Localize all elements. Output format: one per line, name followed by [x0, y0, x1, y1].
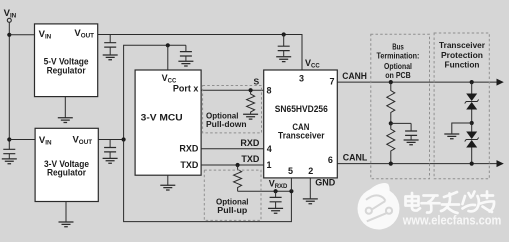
junction CANL termination — [389, 162, 393, 166]
resistor R3 termination upper — [387, 82, 395, 123]
regulator U2 3-V voltage regulator — [35, 128, 98, 201]
ground transceiver GND — [309, 178, 311, 199]
ground capacitor C2 — [178, 61, 193, 66]
wire VIN vertical rail — [8, 23, 10, 150]
svg-text:TXD: TXD — [180, 160, 199, 170]
wire transceiver pin 5 to VRXD — [290, 178, 292, 191]
svg-text:Transceiver: Transceiver — [439, 40, 486, 50]
wire pull-up to VRXD — [238, 190, 292, 192]
resistor R4 termination lower — [387, 123, 395, 163]
arrow CANH — [497, 79, 504, 86]
capacitor C5 3-V input bypass — [8, 154, 10, 159]
wire 5-V rail VOUT to transceiver VCC — [98, 35, 302, 71]
junction CANH termination — [389, 80, 393, 84]
svg-text:1: 1 — [266, 160, 271, 170]
junction termination midpoint — [389, 121, 393, 125]
capacitor C8 split termination — [410, 123, 412, 139]
svg-text:GND: GND — [315, 177, 336, 187]
arrow CANL — [497, 160, 504, 167]
ground pull-down — [243, 114, 258, 119]
tvs D1 upper bidirectional — [465, 82, 479, 123]
wire MCU TXD to transceiver pin D — [201, 164, 264, 166]
capacitor C7 VRXD bypass — [275, 191, 277, 208]
svg-text:Port x: Port x — [173, 83, 199, 93]
svg-text:6: 6 — [328, 155, 333, 165]
wire MCU VCC feed — [167, 45, 169, 70]
wire VRXD return loop — [124, 140, 292, 222]
ground capacitor C1 — [103, 55, 118, 60]
ground MCU — [167, 175, 169, 185]
wire 3-V regulator output — [98, 139, 123, 141]
svg-text:Regulator: Regulator — [47, 65, 86, 75]
ground capacitor C5 — [2, 159, 17, 164]
svg-text:3: 3 — [299, 74, 304, 84]
node VIN input terminal — [4, 8, 17, 22]
ground protection — [444, 134, 459, 139]
junction protection midpoint — [470, 121, 474, 125]
ground capacitor C7 — [268, 208, 283, 213]
svg-text:Regulator: Regulator — [47, 168, 86, 178]
svg-text:Pull-down: Pull-down — [206, 120, 247, 129]
wire VIN to 3-V regulator — [9, 139, 35, 141]
svg-text:2: 2 — [308, 166, 313, 176]
svg-text:5: 5 — [288, 166, 293, 176]
box transceiver protection — [434, 33, 489, 179]
svg-text:Termination:: Termination: — [377, 51, 420, 61]
mcu U3 3-V MCU — [135, 70, 201, 175]
svg-text:on PCB: on PCB — [385, 70, 411, 80]
svg-text:www.elecfans.com: www.elecfans.com — [402, 213, 501, 227]
wire MCU RXD to transceiver pin R — [201, 148, 264, 150]
svg-text:Protection: Protection — [441, 50, 483, 60]
wire 3-V rail top section — [124, 45, 186, 139]
svg-text:CANL: CANL — [343, 152, 368, 162]
box optional pull-up — [204, 170, 261, 220]
resistor R1 optional pull-down — [247, 90, 255, 114]
ground 5-V regulator — [64, 97, 66, 118]
svg-text:Pull-up: Pull-up — [217, 206, 247, 215]
ground capacitor C4 — [276, 57, 291, 62]
wire termination capacitor — [391, 122, 411, 124]
svg-text:3-V MCU: 3-V MCU — [141, 113, 183, 124]
regulator U1 5-V voltage regulator — [35, 24, 98, 97]
tvs D2 lower bidirectional — [465, 123, 479, 164]
watermark logo elecfans — [358, 183, 400, 229]
watermark chinese text — [406, 192, 495, 214]
ground capacitor C6 — [103, 158, 118, 163]
svg-text:Function: Function — [445, 60, 480, 70]
junction VRXD capacitor — [274, 189, 278, 193]
junction CANH protection — [470, 80, 474, 84]
junction VRXD pin 5 — [289, 189, 293, 193]
svg-text:SN65HVD256: SN65HVD256 — [275, 104, 328, 114]
ground capacitor C8 — [404, 140, 419, 145]
junction MCU VCC feed — [166, 43, 170, 47]
junction VIN to 5-V regulator — [7, 33, 11, 37]
svg-text:4: 4 — [267, 144, 272, 154]
capacitor C1 5-V output bypass — [109, 35, 111, 55]
wire VIN to 5-V regulator — [9, 34, 34, 36]
box bus termination — [371, 34, 430, 178]
svg-text:RXD: RXD — [240, 138, 260, 148]
junction 5-V rail transceiver bypass — [282, 32, 286, 36]
junction VIN to 3-V regulator — [7, 137, 11, 141]
capacitor C4 transceiver VCC bypass — [283, 35, 285, 57]
wire CANL bus — [337, 163, 497, 165]
svg-text:TXD: TXD — [241, 154, 260, 164]
junction 3-V rail VRXD return — [122, 137, 126, 141]
capacitor C6 3-V output bypass — [109, 140, 111, 159]
wire CANH bus — [337, 81, 497, 83]
junction CANL protection — [470, 162, 474, 166]
wire protection ground — [452, 123, 472, 134]
wire MCU Port x to transceiver pin S — [201, 89, 264, 91]
resistor R2 optional pull-up — [234, 165, 242, 191]
junction pull-down tap — [249, 88, 253, 92]
svg-text:8: 8 — [266, 85, 271, 95]
box optional pull-down — [203, 86, 262, 133]
capacitor C2 MCU VCC bypass — [185, 45, 187, 61]
svg-text:7: 7 — [329, 77, 334, 87]
svg-text:RXD: RXD — [179, 144, 199, 154]
junction pull-up tap — [236, 163, 240, 167]
transceiver U4 SN65HVD256 — [264, 70, 338, 178]
ground 3-V regulator — [65, 202, 67, 222]
svg-text:Transceiver: Transceiver — [278, 131, 325, 141]
svg-text:CANH: CANH — [342, 71, 367, 81]
